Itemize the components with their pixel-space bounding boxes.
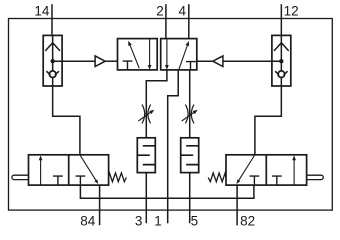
svg-text:12: 12 — [284, 4, 299, 19]
svg-text:5: 5 — [191, 214, 199, 229]
svg-text:2: 2 — [156, 4, 164, 19]
svg-text:14: 14 — [34, 4, 50, 19]
svg-text:1: 1 — [154, 214, 162, 229]
svg-text:84: 84 — [80, 214, 96, 229]
svg-text:82: 82 — [240, 214, 255, 229]
svg-text:4: 4 — [178, 4, 186, 19]
svg-text:3: 3 — [135, 214, 143, 229]
